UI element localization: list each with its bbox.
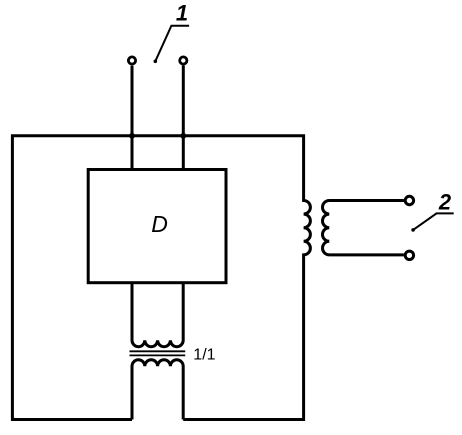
svg-text:1/1: 1/1 <box>193 347 215 364</box>
svg-text:2: 2 <box>438 190 452 215</box>
svg-text:1: 1 <box>176 1 188 26</box>
svg-text:D: D <box>151 211 168 237</box>
